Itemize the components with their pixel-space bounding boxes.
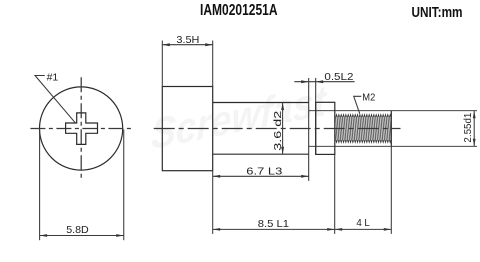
dimension line 8.5 L1 [213,228,335,230]
side view centerline [154,128,401,130]
dimension line 0.5L2 [294,81,354,83]
svg-text:IAM0201251A: IAM0201251A [200,2,278,19]
leader line for #1 [35,76,75,123]
dimension line 3.6 d2 [282,103,284,155]
shank end edge + 0.5L2/6.7L3 extension line [308,78,310,181]
vertical centerline (front view) [80,77,82,180]
svg-text:8.5 L1: 8.5 L1 [258,218,289,230]
phillips recess cross [66,113,98,144]
extension lines 3.5H [161,41,163,87]
screw head (side view) [162,87,212,171]
svg-text:4 L: 4 L [356,217,370,229]
svg-text:3.5H: 3.5H [176,34,199,46]
thread minor top line [309,110,477,112]
svg-text:#1: #1 [47,71,59,83]
extension line below thread end [390,146,392,234]
svg-text:UNIT:mm: UNIT:mm [412,4,463,21]
head circle (front view) [40,87,123,170]
thread crest teeth bottom [336,140,392,144]
svg-text:2.55d1: 2.55d1 [462,112,474,142]
dimension line 4 L [335,228,392,230]
extension lines 5.8D [39,130,41,241]
svg-text:M2: M2 [362,91,375,103]
shank bottom line [213,153,309,155]
dimension line 6.7L3 [213,175,309,177]
thread hatch fill [335,116,391,140]
thread end edge [390,111,392,147]
leader line for M2 [354,96,362,114]
dimension line 5.8D [40,235,124,237]
thread crest teeth top [336,113,392,117]
thread minor bottom line [309,145,477,147]
svg-text:5.8D: 5.8D [66,224,89,236]
extension line below head face [212,171,214,234]
svg-text:6.7 L3: 6.7 L3 [246,166,282,178]
washer left edge + extension [315,78,317,154]
captive washer [316,102,335,154]
dimension line 3.5H [162,44,212,46]
dimension line 2.55d1 [473,111,475,147]
watermark [142,76,337,158]
shank top line [213,102,309,104]
svg-text:0.5L2: 0.5L2 [324,71,353,83]
horizontal centerline (front view) [30,128,132,130]
svg-text:3.6 d2: 3.6 d2 [272,110,284,150]
extension line below washer/thread start [334,154,336,234]
